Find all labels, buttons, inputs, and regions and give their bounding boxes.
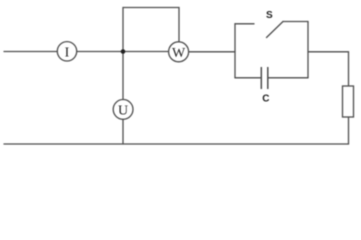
svg-text:C: C xyxy=(262,93,269,104)
svg-text:S: S xyxy=(266,10,273,21)
wire junction to voltmeter xyxy=(122,52,124,100)
svg-text:U: U xyxy=(118,103,128,118)
svg-text:I: I xyxy=(65,45,70,60)
wire wattmeter voltage-coil loop xyxy=(123,8,179,52)
wire right bar to resistor xyxy=(308,52,349,86)
wire right bus bar of parallel block xyxy=(307,22,309,78)
wire bottom rail xyxy=(4,143,349,145)
ammeter I xyxy=(57,42,76,61)
wire resistor to bottom rail xyxy=(348,117,350,144)
wire ammeter to junction to wattmeter xyxy=(77,51,169,53)
resistor R xyxy=(343,86,354,117)
voltmeter U xyxy=(113,100,133,120)
capacitor C xyxy=(235,67,308,89)
wire top-left feeder xyxy=(4,51,57,53)
svg-text:W: W xyxy=(172,46,186,61)
switch S xyxy=(235,22,308,38)
wire wattmeter to parallel block xyxy=(189,51,235,53)
wire left bus bar of parallel block xyxy=(234,24,236,78)
wattmeter W xyxy=(169,42,189,62)
node junction dot xyxy=(121,49,126,54)
wire voltmeter to bottom rail xyxy=(122,119,124,144)
